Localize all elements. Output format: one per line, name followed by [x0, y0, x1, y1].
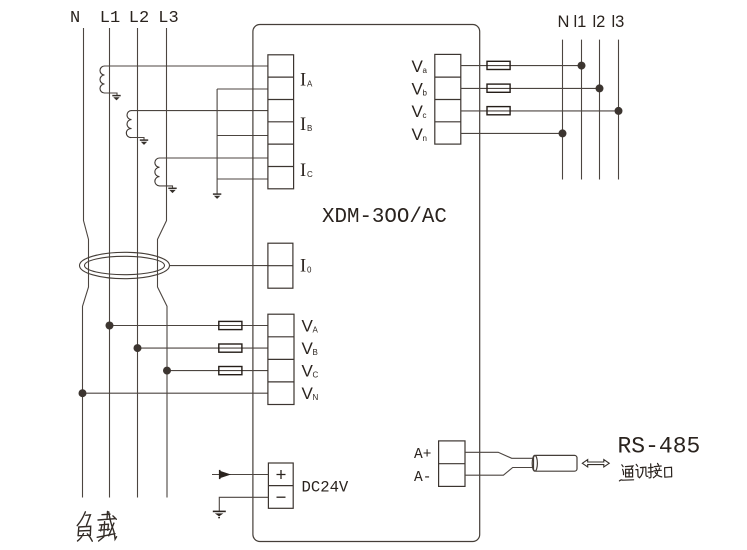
wire Vn to N: [461, 132, 563, 134]
svg-text:C: C: [307, 170, 313, 179]
wire CT1 secondary top to terminal IA: [105, 65, 268, 67]
terminal block current inputs (6 cells): [268, 55, 294, 189]
fuse FA: [219, 321, 242, 329]
wire phase line L3 (left): [158, 28, 168, 498]
svg-text:L3: L3: [158, 9, 178, 28]
terminal block DC24V (2 cells): [268, 463, 293, 508]
ground CT2 arrow earth: [140, 140, 148, 145]
ground bus arrow earth: [213, 194, 221, 199]
inductor CT3 coil on L3: [155, 158, 160, 186]
wire Vc to l3: [461, 110, 619, 112]
svg-text:I: I: [300, 161, 306, 181]
wire bus to IB return terminal: [217, 135, 268, 137]
terminal block voltage inputs left (4 cells): [268, 314, 294, 404]
meter body XDM-3OO/AC: [253, 25, 480, 542]
arrow on plus wire: [220, 471, 231, 479]
wire phase line L2 (left): [137, 28, 139, 498]
fuse FB: [219, 344, 242, 352]
wire DC24V plus: [212, 474, 268, 476]
wire CT3 secondary top to terminal IC: [160, 157, 268, 159]
fuse FC: [219, 367, 242, 375]
wire supply line l1 (right): [581, 40, 583, 180]
node VN junction on N: [79, 389, 87, 397]
svg-text:L2: L2: [129, 9, 149, 28]
svg-text:I: I: [300, 115, 306, 135]
wire A- to cable: [465, 468, 533, 476]
wire CT2 secondary top to terminal IB: [132, 110, 268, 112]
char xun: [636, 464, 640, 477]
wire VA tap to terminal: [110, 325, 268, 327]
wire phase line L1 (left): [109, 28, 111, 498]
char zai: [97, 511, 115, 541]
wire ring to I0 terminal: [170, 265, 268, 267]
arrow double-headed: [582, 460, 609, 467]
svg-text:DC24V: DC24V: [302, 479, 349, 497]
svg-text:A+: A+: [414, 447, 431, 463]
svg-text:B: B: [313, 348, 318, 357]
ground DC24V earth: [213, 511, 226, 517]
node Vc-l3: [615, 107, 623, 115]
wire VB tap to terminal: [138, 347, 268, 349]
wire bus to IA return terminal: [217, 88, 268, 90]
char fu: [77, 512, 90, 526]
svg-text:I: I: [300, 257, 306, 277]
wire CT1 secondary bottom to ground: [105, 93, 118, 95]
node Vb-l2: [596, 84, 604, 92]
ground CT1 arrow earth: [112, 96, 120, 101]
label 通讯接口 (drawn strokes): [619, 463, 671, 481]
svg-text:A: A: [307, 80, 313, 89]
svg-text:n: n: [423, 134, 427, 143]
svg-text:A: A: [313, 326, 319, 335]
terminal block RS485 A+/A- (2 cells): [439, 441, 465, 487]
char jie: [648, 464, 653, 478]
svg-text:l1: l1: [574, 13, 587, 31]
svg-text:N: N: [70, 9, 80, 28]
svg-text:l2: l2: [593, 13, 606, 31]
svg-text:l3: l3: [612, 13, 625, 31]
svg-text:RS-485: RS-485: [618, 433, 701, 459]
fuse Fb: [487, 84, 510, 92]
summation CT ring (double ellipse): [80, 252, 170, 278]
svg-text:L1: L1: [100, 9, 120, 28]
wire CT2 secondary bottom to ground: [132, 138, 145, 140]
wire VN tap to terminal: [83, 392, 268, 394]
node VB junction on L2: [134, 344, 142, 352]
char tong: [619, 465, 633, 481]
wire supply line l2 (right): [599, 40, 601, 180]
char kou: [665, 467, 672, 477]
svg-text:XDM-3OO/AC: XDM-3OO/AC: [322, 206, 447, 229]
wire bus to IC return terminal: [217, 178, 268, 180]
wire VC tap to terminal: [167, 370, 268, 372]
wire CT3 secondary bottom to ground: [160, 186, 173, 188]
node VC junction on L3: [163, 367, 171, 375]
wire Vb to l2: [461, 87, 600, 89]
svg-text:a: a: [423, 66, 428, 75]
svg-text:C: C: [313, 371, 319, 380]
wire A+ to cable: [465, 452, 533, 458]
svg-text:N: N: [558, 13, 570, 31]
inductor CT1 coil on L1: [100, 66, 105, 93]
node Vn-N: [559, 129, 567, 137]
svg-text:A-: A-: [414, 470, 431, 486]
connector plug barrel: [532, 455, 577, 471]
svg-text:I: I: [300, 71, 306, 91]
label plus: [277, 470, 286, 479]
svg-text:B: B: [307, 124, 312, 133]
node VA junction on L1: [106, 322, 114, 330]
svg-text:c: c: [423, 111, 427, 120]
svg-text:b: b: [423, 89, 428, 98]
ground CT3 arrow earth: [168, 188, 176, 193]
svg-text:N: N: [313, 393, 319, 402]
fuse Fa: [487, 61, 510, 69]
svg-text:0: 0: [307, 266, 312, 275]
terminal block I0 (2 cells): [268, 243, 293, 288]
node Va-l1: [578, 62, 586, 70]
terminal block voltage inputs right (4 cells): [435, 54, 461, 144]
wire common return bus vertical: [216, 89, 218, 194]
fuse Fc: [487, 107, 510, 115]
wire supply line N (right): [562, 40, 564, 180]
label 负载 (drawn strokes): [77, 511, 116, 541]
wire Va to l1: [461, 65, 582, 67]
wire supply line l3 (right): [618, 40, 620, 180]
wire DC24V minus to earth: [219, 497, 268, 511]
label minus: [277, 496, 286, 498]
wire phase line N (left): [83, 28, 89, 498]
inductor CT2 coil on L2: [126, 111, 131, 138]
